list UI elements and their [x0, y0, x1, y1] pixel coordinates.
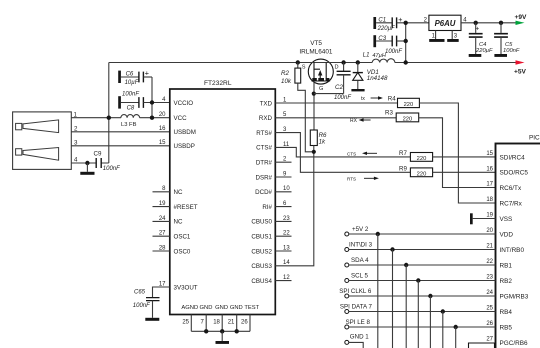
svg-text:VSS: VSS	[500, 216, 513, 223]
svg-text:RX: RX	[350, 118, 358, 124]
node C2 top on 5V rail	[341, 60, 345, 64]
svg-text:SPI DATA 7: SPI DATA 7	[340, 303, 373, 310]
U1 pin 2 DTR# stub	[275, 161, 291, 163]
node 5V rail / boost input	[404, 60, 408, 64]
svg-text:19: 19	[486, 213, 493, 219]
svg-text:VCC: VCC	[174, 115, 188, 122]
U1 pin 28 OSC0 stub	[153, 250, 170, 252]
svg-text:RB1: RB1	[500, 262, 513, 269]
node gate / C2	[312, 92, 316, 96]
svg-text:13: 13	[283, 245, 290, 251]
svg-text:TXD: TXD	[260, 100, 273, 107]
U1 bottom pin 25 stub	[190, 315, 192, 332]
node bus junction	[441, 309, 445, 313]
node bus junction	[416, 278, 420, 282]
svg-text:SPI LE 8: SPI LE 8	[346, 319, 371, 326]
ground at C4	[469, 54, 482, 57]
svg-text:24: 24	[159, 216, 166, 222]
svg-text:220µF: 220µF	[377, 26, 395, 32]
wire header row	[349, 280, 496, 282]
svg-text:10k: 10k	[281, 78, 292, 85]
capacitor C1	[373, 17, 376, 29]
svg-text:+5V: +5V	[514, 69, 527, 76]
svg-text:VCCIO: VCCIO	[174, 100, 194, 107]
U1 pin 6 RI# stub	[275, 206, 291, 208]
svg-text:AGND: AGND	[181, 305, 198, 311]
node VCC junction	[150, 116, 154, 120]
wire RXD to R3	[275, 117, 396, 119]
svg-text:18: 18	[213, 320, 220, 326]
node bus junction	[428, 294, 432, 298]
svg-text:100nF: 100nF	[103, 166, 120, 172]
capacitor C9	[96, 158, 101, 168]
net +5V arrow	[516, 60, 525, 64]
U1 bottom pin 18 stub	[221, 315, 223, 332]
wire 3V3OUT to C65	[153, 287, 170, 297]
U1 pin 10 DCD# stub	[275, 191, 291, 193]
svg-text:S: S	[302, 64, 306, 70]
wire USB pin2 to USBDM	[71, 131, 170, 133]
svg-text:100nF: 100nF	[334, 95, 351, 101]
capacitor C8	[118, 96, 121, 108]
U1 pin 12 CBUS4 stub	[275, 280, 291, 282]
wire USB pin3 to USBDP	[71, 145, 170, 147]
svg-text:R3: R3	[385, 110, 393, 117]
svg-text:C8: C8	[127, 105, 135, 111]
svg-text:R7: R7	[399, 150, 407, 157]
svg-text:12: 12	[283, 275, 290, 281]
svg-text:RC6/Tx: RC6/Tx	[500, 185, 522, 192]
svg-text:220: 220	[404, 102, 414, 108]
inductor L3 FB	[121, 115, 140, 118]
capacitor C65	[146, 298, 160, 301]
wire bus vertical	[429, 296, 431, 348]
svg-text:RTS: RTS	[347, 176, 356, 181]
svg-text:IRLML6401: IRLML6401	[299, 48, 332, 55]
node C3 row	[404, 39, 408, 43]
svg-text:100nF: 100nF	[503, 48, 520, 54]
svg-text:+: +	[398, 15, 402, 24]
svg-text:CBUS1: CBUS1	[251, 234, 272, 241]
svg-text:NC: NC	[174, 189, 183, 196]
node bus junction	[390, 247, 394, 251]
svg-text:100nF: 100nF	[133, 303, 150, 309]
svg-text:RI#: RI#	[262, 204, 272, 211]
svg-text:P6AU: P6AU	[435, 19, 456, 28]
diode VD1 1n4148	[357, 63, 359, 73]
svg-text:16: 16	[486, 167, 493, 173]
node bus junction	[404, 263, 408, 267]
svg-text:G: G	[319, 86, 323, 92]
svg-text:R4: R4	[388, 95, 396, 102]
node header INT\DI 3	[345, 248, 349, 252]
svg-text:10µF: 10µF	[125, 80, 139, 86]
svg-text:RC7/Rx: RC7/Rx	[500, 200, 523, 207]
wire R9 to PIC SDO/RC5	[433, 171, 496, 173]
svg-text:CTS#: CTS#	[256, 145, 272, 152]
wire header row	[349, 264, 496, 266]
inductor L1 47µH	[372, 59, 395, 63]
svg-text:1n4148: 1n4148	[367, 75, 388, 82]
svg-text:24: 24	[486, 290, 493, 296]
svg-text:CTS: CTS	[347, 151, 356, 156]
svg-text:25: 25	[486, 306, 493, 312]
wire +9V line	[461, 22, 516, 24]
svg-text:15: 15	[159, 140, 166, 146]
node header SPI DATA 7	[345, 310, 349, 314]
svg-text:SPI CLKL 6: SPI CLKL 6	[339, 288, 372, 295]
svg-text:CBUS3: CBUS3	[251, 263, 272, 270]
svg-text:NC: NC	[174, 219, 183, 226]
U2 pin 3 stub and ground	[451, 31, 453, 40]
svg-text:26: 26	[241, 320, 248, 326]
svg-text:RTS#: RTS#	[256, 130, 272, 137]
svg-text:PGC/RB6: PGC/RB6	[500, 340, 529, 347]
wire CTS# to R7	[275, 147, 410, 157]
U1 pin 24 NC stub	[153, 220, 170, 222]
svg-text:20: 20	[159, 112, 166, 118]
svg-text:USBDP: USBDP	[174, 143, 195, 150]
node C1 row	[404, 21, 408, 25]
ground at VD1	[351, 89, 364, 91]
resistor R9 220	[410, 168, 432, 177]
USB contact square top	[16, 123, 22, 129]
svg-text:27: 27	[486, 337, 493, 343]
U1 bottom pin 26 stub	[249, 315, 251, 332]
svg-text:GND: GND	[200, 305, 213, 311]
U2 pin 1 stub and ground	[435, 31, 437, 40]
svg-text:C1: C1	[378, 18, 386, 24]
svg-text:23: 23	[486, 275, 493, 281]
wire bus vertical	[377, 234, 379, 348]
svg-text:USBDM: USBDM	[174, 129, 196, 136]
U1 pin 9 DSR# stub	[275, 176, 291, 178]
node VD1 top on 5V rail	[356, 60, 360, 64]
wire C6 to C8 vertical	[151, 77, 153, 118]
node USB gnd / C9	[85, 161, 89, 165]
svg-text:PGM/RB3: PGM/RB3	[500, 293, 529, 300]
svg-text:27: 27	[159, 231, 166, 237]
svg-text:GND 1: GND 1	[350, 334, 369, 341]
svg-text:L3 FB: L3 FB	[121, 122, 137, 128]
wire header row	[349, 326, 496, 328]
wire bus vertical	[417, 281, 419, 348]
node header SDA 4	[345, 263, 349, 267]
node bus junction	[454, 325, 458, 329]
svg-text:22: 22	[283, 231, 290, 237]
svg-text:SDI/RC4: SDI/RC4	[500, 154, 526, 161]
svg-text:SDO/RC5: SDO/RC5	[500, 170, 529, 177]
wire 5V rail drop to VCC/C9	[108, 63, 110, 164]
svg-text:INT\DI 3: INT\DI 3	[349, 241, 373, 248]
capacitor C6	[118, 71, 121, 83]
U1 bottom pin 21 stub	[236, 315, 238, 332]
svg-text:VT5: VT5	[310, 40, 322, 47]
wire bus vertical	[405, 265, 407, 348]
svg-text:CBUS4: CBUS4	[251, 278, 272, 285]
svg-text:25: 25	[182, 320, 189, 326]
svg-text:47µH: 47µH	[372, 53, 386, 59]
svg-text:RB5: RB5	[500, 324, 513, 331]
svg-text:OSC0: OSC0	[174, 248, 191, 255]
USB contact square bottom	[16, 149, 22, 155]
capacitor C4	[474, 21, 478, 25]
svg-text:#RESET: #RESET	[174, 204, 198, 211]
resistor R2 10k	[297, 63, 299, 69]
svg-text:C65: C65	[134, 290, 146, 296]
resistor R3 220	[396, 113, 419, 122]
svg-text:17: 17	[486, 182, 493, 188]
U1 pin 27 OSC1 stub	[153, 235, 170, 237]
node R2 top on 5V rail	[296, 60, 300, 64]
svg-text:RB2: RB2	[500, 278, 513, 285]
U1 pin 8 NC stub	[153, 191, 170, 193]
transistor VT5 IRLML6401 body	[308, 59, 333, 84]
svg-text:SCL 5: SCL 5	[351, 272, 369, 279]
svg-text:C3: C3	[378, 36, 386, 42]
IC U2 P6AU boost converter	[429, 15, 461, 30]
svg-text:18: 18	[486, 197, 493, 203]
capacitor C3	[373, 35, 376, 47]
svg-text:20: 20	[486, 228, 493, 234]
node header GND 1	[345, 340, 349, 344]
node gnd bus dots	[204, 329, 208, 333]
USB contact wedge top	[23, 120, 59, 133]
wire header row	[349, 295, 496, 297]
svg-text:3V3OUT: 3V3OUT	[174, 284, 198, 291]
wire header row	[349, 249, 496, 251]
svg-text:C2: C2	[335, 84, 343, 91]
wire R2 bottom to CBUS3 node	[298, 83, 314, 152]
svg-text:26: 26	[486, 321, 493, 327]
svg-text:GND: GND	[230, 305, 243, 311]
svg-text:22: 22	[486, 259, 493, 265]
svg-text:28: 28	[159, 245, 166, 251]
svg-text:15: 15	[486, 151, 493, 157]
capacitor C5	[499, 21, 503, 25]
svg-text:CBUS0: CBUS0	[251, 219, 272, 226]
svg-text:OSC1: OSC1	[174, 234, 191, 241]
wire header row	[349, 311, 496, 313]
ground at C5	[494, 54, 507, 57]
svg-text:220: 220	[403, 117, 413, 123]
wire header row	[349, 233, 496, 235]
wire R6 bottom to CBUS3	[275, 146, 314, 266]
svg-text:100nF: 100nF	[122, 91, 139, 97]
node header +5V 2	[345, 232, 349, 236]
wire R4 to PIC RC7/Rx	[419, 103, 495, 203]
svg-text:SDA 4: SDA 4	[351, 257, 369, 264]
U1 pin 19 #RESET stub	[153, 206, 170, 208]
USB connector body	[13, 112, 72, 169]
ground bar at VSS	[470, 213, 473, 224]
U1 pin 13 CBUS2 stub	[275, 250, 291, 252]
svg-text:VDD: VDD	[500, 231, 514, 238]
node header SPI LE 8	[345, 325, 349, 329]
svg-text:L1: L1	[363, 53, 370, 59]
wire bus vertical	[442, 312, 444, 348]
svg-text:INT/RB0: INT/RB0	[500, 247, 525, 254]
svg-text:R9: R9	[399, 166, 407, 173]
svg-text:C9: C9	[94, 150, 102, 157]
resistor R4 220	[398, 98, 420, 107]
capacitor C2	[343, 63, 345, 72]
svg-text:+: +	[475, 26, 479, 33]
svg-text:21: 21	[228, 320, 235, 326]
U1 bottom pin 7 stub	[205, 315, 207, 332]
svg-text:+: +	[145, 69, 149, 78]
svg-text:19: 19	[159, 201, 166, 207]
USB contact wedge bottom	[23, 148, 59, 161]
svg-text:FT232RL: FT232RL	[204, 80, 232, 87]
node C8/VCCIO	[150, 100, 154, 104]
svg-text:PIC: PIC	[529, 135, 540, 142]
svg-text:220: 220	[417, 156, 427, 162]
svg-text:tx: tx	[361, 96, 365, 102]
resistor R7 220	[410, 153, 432, 162]
wire gate down from VT5	[313, 81, 315, 130]
svg-text:D: D	[335, 65, 339, 71]
wire ground bus under U1	[191, 330, 250, 332]
wire bus vertical	[392, 250, 394, 348]
svg-text:CBUS2: CBUS2	[251, 248, 272, 255]
svg-text:RXD: RXD	[259, 115, 273, 122]
svg-text:DSR#: DSR#	[255, 174, 272, 181]
wire bus vertical	[455, 327, 457, 348]
svg-text:R2: R2	[281, 70, 289, 77]
svg-text:100nF: 100nF	[385, 49, 402, 55]
wire C2 bottom to gate	[314, 93, 344, 95]
svg-text:10: 10	[283, 186, 290, 192]
net +9V arrow	[516, 21, 525, 25]
svg-text:DTR#: DTR#	[256, 160, 273, 167]
svg-text:220µF: 220µF	[475, 48, 493, 54]
svg-text:TEST: TEST	[244, 305, 259, 311]
svg-text:DCD#: DCD#	[255, 189, 272, 196]
wire +5V rail	[109, 62, 516, 64]
node USB pin1 / 5V drop	[107, 116, 111, 120]
node header SPI CLKL 6	[345, 294, 349, 298]
U1 pin 22 CBUS1 stub	[275, 235, 291, 237]
svg-text:+9V: +9V	[515, 14, 528, 21]
ground under U1	[221, 331, 223, 341]
svg-text:1k: 1k	[319, 139, 326, 146]
wire USB pin4 ground/C9	[71, 162, 109, 164]
resistor on PGC/RB6 (partial)	[469, 343, 496, 348]
svg-text:21: 21	[486, 244, 493, 250]
node R6/R2/CBUS3	[312, 150, 316, 154]
wire R3 to PIC RC6/Tx	[419, 118, 496, 188]
svg-text:23: 23	[283, 216, 290, 222]
wire USB pin1 to VCC	[71, 117, 170, 119]
svg-text:C6: C6	[126, 71, 134, 77]
svg-text:RB4: RB4	[500, 309, 513, 316]
node bus junction	[376, 232, 380, 236]
ground at USB pin4	[86, 163, 88, 172]
IC U3 PIC body	[496, 144, 540, 348]
wire RTS# to R9	[275, 133, 410, 173]
wire C1/C3 junction vertical to 5V rail	[405, 23, 407, 63]
wire GND 1 down	[349, 342, 363, 348]
svg-text:220: 220	[417, 172, 427, 178]
IC U1 FT232RL body	[170, 89, 275, 315]
resistor R6 1k	[310, 130, 317, 146]
svg-text:+5V 2: +5V 2	[352, 226, 369, 233]
svg-text:GND: GND	[215, 305, 228, 311]
ground at C65	[152, 301, 154, 318]
wire R7 to PIC SDI/RC4	[433, 156, 496, 158]
node header SCL 5	[345, 279, 349, 283]
U1 pin 23 CBUS0 stub	[275, 220, 291, 222]
wire TXD to R4	[275, 102, 397, 104]
svg-text:16: 16	[159, 126, 166, 132]
